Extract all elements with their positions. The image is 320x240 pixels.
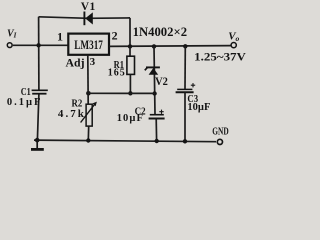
- ground symbol: [31, 140, 44, 149]
- terminal Vi circle: [7, 43, 12, 48]
- diode V2: [145, 67, 160, 75]
- resistor R1: [127, 56, 135, 74]
- terminal Vo circle: [231, 43, 236, 48]
- svg-text:3: 3: [90, 56, 96, 68]
- svg-text:1N4002×2: 1N4002×2: [133, 25, 188, 39]
- svg-text:4.7k: 4.7k: [58, 108, 85, 120]
- capacitor C1: [32, 90, 48, 93]
- wire: C3 bottom lead: [184, 92, 186, 141]
- wire: Adj pin vertical: [87, 55, 89, 104]
- svg-text:1.25~37V: 1.25~37V: [194, 50, 246, 63]
- node: junction output/R1/top wire: [128, 44, 132, 48]
- wire: left vertical rail (top corner to C1 top): [38, 17, 40, 91]
- svg-text:LM317: LM317: [74, 38, 103, 52]
- wire: top bypass wire: [39, 17, 130, 19]
- svg-text:2: 2: [112, 28, 118, 42]
- node: C2 bottom junction: [155, 139, 159, 143]
- svg-text:0.1µF: 0.1µF: [7, 97, 41, 108]
- wire: left vertical rail (C1 bottom to ground rail): [37, 94, 39, 141]
- wire: V2/C2 branch from output wire down to C2 top: [154, 46, 155, 114]
- wire: bottom ground rail: [34, 140, 216, 142]
- svg-text:1: 1: [57, 29, 63, 43]
- wire: R1 branch lower: [129, 74, 131, 93]
- capacitor C3: [176, 83, 196, 92]
- svg-text:10µF: 10µF: [117, 113, 143, 124]
- node: input junction: [36, 43, 40, 47]
- svg-text:V1: V1: [81, 1, 96, 13]
- node: R2 bottom junction: [86, 138, 90, 142]
- node: ground junction: [35, 138, 40, 143]
- wire: R2 bottom lead: [87, 126, 89, 140]
- node: R1 bottom junction: [128, 91, 132, 95]
- wire: C3 branch upper: [184, 46, 186, 89]
- potentiometer R2: [81, 102, 97, 127]
- wire: R1 branch upper: [129, 46, 131, 56]
- regulator IC U1 LM317: [68, 34, 109, 55]
- diode V1: [84, 12, 92, 26]
- svg-text:165: 165: [108, 67, 125, 78]
- wire: right vertical from top wire to output line: [129, 18, 131, 47]
- svg-text:10µF: 10µF: [187, 102, 210, 113]
- node: junction output/V2: [152, 44, 156, 48]
- wire: Adj horizontal rail: [88, 92, 154, 94]
- node: C3 bottom junction: [183, 139, 187, 143]
- svg-text:GND: GND: [212, 127, 228, 138]
- node: junction output/C3: [183, 44, 187, 48]
- wire: input wire from Vi to LM317 pin1: [13, 44, 69, 46]
- svg-text:Adj: Adj: [66, 56, 85, 70]
- node: Adj junction: [86, 91, 91, 96]
- wire: C2 bottom lead: [155, 119, 157, 141]
- terminal GND circle: [217, 139, 222, 144]
- svg-text:V2: V2: [155, 76, 168, 88]
- node: V2/C2 junction: [152, 91, 156, 95]
- capacitor C2: [149, 110, 165, 119]
- wire: output wire from pin2 to Vo: [109, 45, 231, 48]
